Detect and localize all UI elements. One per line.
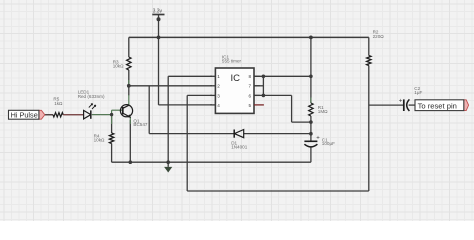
node To reset pin label: [415, 100, 469, 111]
node Hi Pulse label: [9, 110, 45, 119]
resistor R1: [309, 103, 313, 116]
svg-text:7: 7: [249, 84, 252, 89]
wire pin8 to vcc: [254, 75, 311, 77]
wire pin6 to R1 bottom: [292, 121, 311, 123]
top rail wire: [129, 36, 369, 38]
wire pin4 horizontal: [159, 104, 213, 106]
resistor R3: [127, 57, 131, 70]
svg-text:1MΩ: 1MΩ: [318, 109, 328, 114]
svg-text:10kΩ: 10kΩ: [94, 138, 105, 143]
wire D1 cathode vertical: [148, 86, 150, 134]
svg-text:BC547: BC547: [133, 122, 147, 127]
svg-text:+: +: [316, 136, 320, 142]
resistor R4: [109, 133, 113, 144]
wire pin2 horizontal: [129, 85, 212, 87]
svg-text:555 timer: 555 timer: [222, 58, 242, 63]
svg-text:Red (633nm): Red (633nm): [78, 94, 105, 99]
wire ground rail: [112, 161, 311, 163]
svg-text:To reset pin: To reset pin: [418, 101, 457, 110]
svg-text:220Ω: 220Ω: [373, 34, 385, 39]
ground: [164, 162, 172, 172]
resistor R2: [367, 56, 371, 66]
svg-text:3.3v: 3.3v: [153, 9, 163, 15]
wire emitter down: [129, 120, 131, 162]
svg-text:2: 2: [217, 84, 220, 89]
wire C2 horizontal: [369, 104, 404, 106]
wire R4 vertical: [111, 115, 113, 163]
green pin-end wire tints: [92, 80, 311, 124]
wire pin3 output vertical: [186, 95, 188, 191]
svg-text:3: 3: [217, 93, 220, 98]
resistor R5: [53, 113, 63, 117]
diode D1: [234, 130, 244, 138]
wire D1 right: [244, 133, 311, 135]
svg-text:1μF: 1μF: [414, 90, 422, 95]
capacitor C1: [304, 141, 317, 147]
power stem wire: [158, 15, 160, 105]
svg-text:4: 4: [217, 103, 220, 108]
wire bottom loop: [187, 190, 369, 192]
wire vcc R1 vertical: [310, 37, 312, 141]
svg-text:+: +: [399, 99, 403, 105]
capacitor C1 bottom lead: [310, 147, 312, 163]
IC U1 555 timer box: [210, 54, 264, 113]
svg-text:IC: IC: [231, 73, 241, 84]
wire pin1 to ground vertical: [167, 76, 169, 162]
wire pin6 horizontal: [254, 94, 292, 96]
wire pin6 branch vertical: [291, 95, 293, 122]
svg-text:Hi Pulse: Hi Pulse: [11, 111, 38, 120]
wire pin3 horizontal: [187, 94, 212, 96]
svg-text:1kΩ: 1kΩ: [54, 101, 63, 106]
wire HiPulse to R5: [45, 114, 53, 116]
transistor Q1: [120, 105, 132, 118]
svg-text:10kΩ: 10kΩ: [113, 64, 124, 69]
wire pin7-6-8 vertical: [262, 76, 264, 95]
power 3.3v bar: [152, 14, 164, 16]
wire R5 to LED anode (red net): [63, 114, 83, 116]
wire pin1 horizontal: [168, 75, 212, 77]
svg-text:1: 1: [217, 74, 220, 79]
svg-text:1N4001: 1N4001: [231, 145, 248, 150]
svg-text:100μF: 100μF: [322, 141, 335, 146]
wire R2 branch vertical: [368, 37, 370, 191]
LED LED1: [84, 104, 96, 119]
wire pin7 stub: [254, 85, 263, 87]
svg-text:5: 5: [249, 103, 252, 108]
resistor R3 leads: [128, 37, 130, 85]
svg-text:6: 6: [249, 93, 252, 98]
svg-text:8: 8: [249, 74, 252, 79]
wire D1 left: [149, 133, 234, 135]
pin 5 red stub: [254, 104, 264, 106]
capacitor C2: [404, 99, 410, 111]
wire C2 to label: [409, 104, 415, 106]
wire collector vertical: [128, 86, 130, 96]
